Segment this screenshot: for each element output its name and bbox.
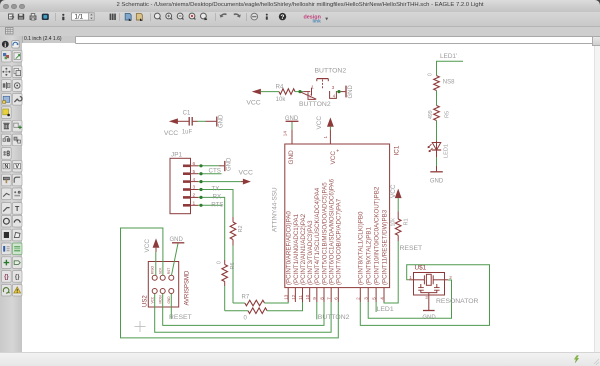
JP1 pin 6 pad <box>183 165 191 168</box>
switch S2 BUTTON2 <box>304 91 311 93</box>
capacitor C1 <box>188 117 190 126</box>
IC1 pin 4 PB3 <box>383 288 385 302</box>
sidebar tool smash <box>2 174 12 186</box>
wire LED1 to GND <box>436 150 438 171</box>
supply VCC arrow at C1 <box>170 119 177 123</box>
IC1 pin 2 PB0 <box>359 288 361 302</box>
toolbar icon use library <box>110 14 112 20</box>
toolbar icon save floppy <box>18 14 24 20</box>
toolbar icon zoom 4 <box>189 13 195 19</box>
ground GND at C1 <box>216 117 218 127</box>
junction at S2 pin3 <box>337 90 340 93</box>
sidebar tool miter <box>12 174 22 186</box>
JP1 pin 3 pad <box>183 188 191 191</box>
net CTS wire <box>198 173 221 175</box>
sidebar tool net selected <box>12 243 22 255</box>
toolbar icon zoom 5 <box>201 13 207 19</box>
sidebar tool junction <box>2 257 12 269</box>
net RESET stub at US2 <box>170 294 172 319</box>
toolbar icon sheet blue <box>125 13 131 20</box>
sidebar tool errors <box>12 284 22 296</box>
sidebar tool label <box>12 257 22 269</box>
net RTS wire <box>198 204 222 206</box>
toolbar icon script dots <box>62 14 64 16</box>
sidebar tool mirror <box>2 80 12 92</box>
toolbar icon zoom 3 <box>177 13 183 19</box>
sidebar tool text <box>12 203 22 215</box>
US2 pad MOSIb <box>160 289 165 294</box>
sidebar tool erc <box>2 284 12 296</box>
IC1 pin 1 VCC top <box>328 119 333 127</box>
toolbar icon zoom 2 <box>166 13 172 19</box>
IC1 pin 13 PA0 <box>287 288 289 302</box>
sidebar tool group <box>2 94 12 106</box>
toolbar icon redo <box>234 14 240 16</box>
sidebar tool display <box>2 50 12 62</box>
resonator pin 3 to GND <box>428 293 430 310</box>
resistor R6 <box>224 260 226 265</box>
net stub LED1' top right <box>437 61 464 75</box>
net MISO wire big loop <box>121 228 339 338</box>
IC1 pin 5 PB2 <box>375 288 377 302</box>
sidebar tool attribute global <box>12 271 22 283</box>
origin cross <box>135 326 146 328</box>
command row icon info <box>2 41 9 48</box>
supply VCC arrow at R1 <box>396 190 401 198</box>
sidebar tool circle <box>2 215 12 227</box>
sidebar tool split <box>2 188 12 200</box>
wire JP1 pin6 to GND <box>198 165 219 167</box>
grid button icon <box>5 28 13 34</box>
wire R4 to S2 pin1 <box>295 91 304 93</box>
resistor NS8 <box>434 76 440 91</box>
net LED1 stub at pin 5 <box>375 302 377 312</box>
supply VCC arrow at JP1 <box>241 181 243 183</box>
net XTAL1 wire around resonator <box>360 265 489 326</box>
net TX wire <box>198 190 233 218</box>
IC1 pin 14 GND top <box>291 129 293 144</box>
toolbar icon open <box>9 14 14 19</box>
supply VCC arrow at US2 <box>153 240 158 248</box>
sidebar tool rotate <box>12 80 22 92</box>
sidebar tool replace <box>12 134 22 146</box>
US2 pad SCK <box>160 275 165 280</box>
wire R7 to IC1 pin 13 <box>265 302 289 303</box>
toolbar icon sheet tan <box>136 13 142 20</box>
toolbar separator 1 <box>55 13 57 21</box>
resistor R2 <box>232 217 234 222</box>
connector US2 AVRISPSMD body <box>148 262 178 308</box>
wire S2 to GND <box>336 91 341 93</box>
resonator capacitor plates <box>418 287 424 289</box>
sidebar tool delete <box>2 120 12 132</box>
wire R5 to LED1 <box>436 121 438 142</box>
status bar sync icon <box>574 356 578 363</box>
toolbar icon print <box>30 16 36 19</box>
resistor R4 <box>279 89 295 95</box>
IC1 pin 3 PB1 <box>367 288 369 302</box>
resistor R3 zero ohm <box>225 310 248 312</box>
toolbar separator 2 <box>119 13 121 21</box>
sidebar tool copy <box>12 66 22 78</box>
sidebar tool rect <box>2 229 12 241</box>
sidebar tool change <box>12 94 22 106</box>
sidebar tool attribute <box>2 271 12 283</box>
JP1 pin 2 pad <box>183 196 191 199</box>
wire VCC to R1 <box>397 198 399 211</box>
sidebar tool move <box>2 66 12 78</box>
US2 pad VCCb <box>152 289 157 294</box>
supply VCC arrow at R4 <box>253 89 260 93</box>
wire R3 to IC1 pin 11 <box>267 302 303 311</box>
net RESET wire <box>384 241 398 303</box>
IC1 pin 7 PA6 <box>330 288 332 302</box>
ground GND below LED1 <box>430 171 443 173</box>
sidebar tool cut <box>2 107 12 119</box>
net BUTTON2 stub at pin 9 <box>316 302 318 319</box>
toolbar separator 4 <box>215 13 217 21</box>
net SCK wire <box>163 294 324 326</box>
toolbar icon zoom 1 <box>154 13 160 19</box>
toolbar sheet combo 1/1 <box>72 13 90 20</box>
US2 pad RST <box>169 275 174 280</box>
ground GND at JP1 <box>224 161 226 171</box>
net MOSI wire <box>155 294 331 333</box>
IC1 pin 6 PA7 <box>337 288 339 302</box>
wire R6 down <box>224 286 226 311</box>
sidebar tool polygon <box>12 229 22 241</box>
wire JP1 pin4 to VCC <box>198 181 241 183</box>
LED D LED1 <box>436 141 438 150</box>
toolbar icon dots2 <box>266 14 268 16</box>
IC1 pin 10 PA3 <box>309 288 311 302</box>
junction at S2 pin1 <box>298 90 301 93</box>
wire R2 to R7 <box>232 246 234 304</box>
sidebar tool add <box>12 120 22 132</box>
sidebar tool mark <box>12 50 22 62</box>
wire VCC to R4 <box>260 91 279 93</box>
sidebar tool pinswap <box>2 134 12 146</box>
sidebar tool gateswap <box>2 148 12 160</box>
resistor R5 <box>434 106 440 121</box>
op IC1 ATTINY44 body <box>285 144 390 288</box>
sidebar tool wire <box>2 203 12 215</box>
net XTAL2 wire <box>368 280 451 318</box>
resistor R7 <box>233 302 245 304</box>
wire NS8 to R5 <box>436 91 438 106</box>
toolbar icon stop <box>251 13 258 20</box>
wire C1 VCC lead <box>177 120 189 122</box>
wire C1 to GND <box>193 120 198 122</box>
sidebar tool arc <box>12 215 22 227</box>
window resize grip <box>594 359 599 365</box>
wire VCC to US2 pad <box>155 252 157 275</box>
junction JP1 pin6 <box>199 164 202 167</box>
US2 pad GNDb <box>169 289 174 294</box>
IC1 pin 11 PA2 <box>302 288 304 302</box>
JP1 pin 4 pad <box>183 180 191 183</box>
toolbar icon CAM <box>42 14 49 20</box>
resistor R1 <box>397 212 399 220</box>
sidebar tool name <box>2 160 12 172</box>
toolbar separator 3 <box>150 13 152 21</box>
sidebar tool value <box>12 160 22 172</box>
IC1 pin 8 PA5 <box>323 288 325 302</box>
command row icon go <box>12 41 19 48</box>
US2 pad MISO <box>152 275 157 280</box>
toolbar separator 5 <box>246 13 248 21</box>
ground GND at resonator <box>423 310 435 312</box>
ground GND at S2 <box>345 86 347 98</box>
sidebar tool bus <box>2 243 12 255</box>
JP1 pin 5 pad <box>183 172 191 175</box>
net RX wire <box>198 197 224 260</box>
JP1 pin 1 pad <box>183 204 191 207</box>
wire GND to US2 pad <box>172 243 179 275</box>
toolbar icon undo <box>221 14 227 16</box>
IC1 pin 9 PA4 <box>316 288 318 302</box>
toolbar icon help <box>279 13 286 20</box>
sidebar tool invoke <box>12 188 22 200</box>
IC1 pin 12 PA1 <box>294 288 296 302</box>
